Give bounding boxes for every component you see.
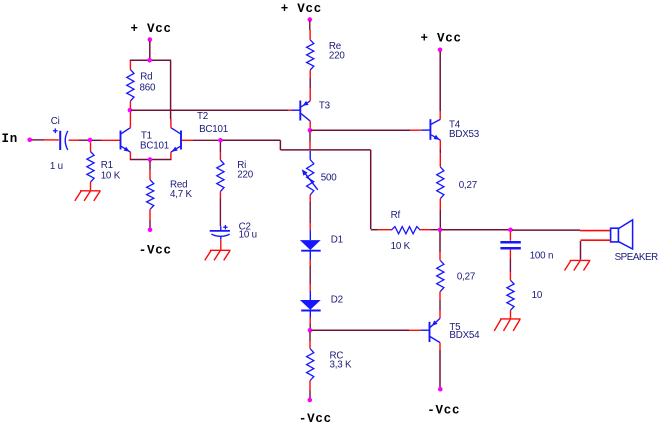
node F (T2 base / feedback) bbox=[218, 138, 223, 143]
svg-text:+ Vcc: + Vcc bbox=[421, 32, 462, 46]
svg-text:SPEAKER: SPEAKER bbox=[615, 252, 659, 263]
svg-text:BC101: BC101 bbox=[140, 141, 169, 152]
svg-text:BDX54: BDX54 bbox=[449, 330, 480, 341]
svg-text:4,7 K: 4,7 K bbox=[170, 189, 193, 200]
wire loop right branch bbox=[170, 61, 172, 119]
diode D2 bbox=[300, 291, 343, 318]
wire T1 collector up bbox=[129, 111, 131, 127]
node In (input terminal) bbox=[2, 132, 33, 146]
svg-text:100 n: 100 n bbox=[530, 251, 554, 262]
wire T3 collector down bbox=[309, 121, 311, 128]
svg-text:-Vcc: -Vcc bbox=[427, 404, 460, 418]
transistor T4 (BDX53, NPN) bbox=[421, 119, 479, 140]
wire emitters junction row bbox=[130, 159, 172, 161]
node I (D2 / RC / T5 base) bbox=[308, 328, 313, 333]
wire T2 base stub bbox=[182, 139, 218, 141]
wire to speaker bbox=[512, 229, 611, 232]
svg-text:10: 10 bbox=[532, 290, 543, 301]
power +Vcc (middle) bbox=[281, 2, 322, 22]
transistor T5 (BDX54, PNP) bbox=[421, 318, 480, 342]
wire T5 collector down bbox=[439, 343, 441, 388]
wire node A to T1 base bbox=[92, 139, 120, 141]
wire In to Ci bbox=[32, 139, 59, 141]
ground (speaker) bbox=[565, 260, 591, 270]
svg-text:Rf: Rf bbox=[391, 210, 401, 221]
wire 100n to resistor 10 bbox=[509, 250, 511, 281]
svg-text:-Vcc: -Vcc bbox=[299, 412, 332, 423]
svg-text:500: 500 bbox=[321, 173, 337, 184]
wire T2 emitter down bbox=[170, 152, 172, 159]
svg-text:220: 220 bbox=[237, 170, 253, 181]
wire loop top bbox=[130, 59, 172, 61]
wire node I to T5 base bbox=[312, 329, 422, 331]
svg-text:10 K: 10 K bbox=[391, 241, 411, 252]
node B (emitters of T1/T2) bbox=[148, 157, 153, 162]
wire feedback to Rf bbox=[223, 140, 378, 229]
node -Vcc (below Red) bbox=[139, 228, 172, 258]
wire Ci to node A bbox=[69, 139, 88, 141]
svg-text:T2: T2 bbox=[197, 111, 208, 122]
svg-text:+ Vcc: + Vcc bbox=[131, 22, 172, 36]
potentiometer 500 bbox=[302, 151, 337, 195]
wire T2 collector up bbox=[170, 119, 172, 128]
svg-text:3,3 K: 3,3 K bbox=[330, 359, 353, 370]
node G (output junction) bbox=[438, 228, 443, 233]
wire T1 emitter down bbox=[129, 152, 131, 159]
resistor Rd (860) bbox=[127, 61, 156, 109]
transistor T2 (BC101, NPN right, mirrored) bbox=[171, 111, 228, 152]
resistor Re (220) bbox=[307, 40, 346, 101]
svg-text:+ Vcc: + Vcc bbox=[281, 2, 322, 16]
wire node E to T4 base bbox=[311, 129, 421, 131]
ground (below C2) bbox=[205, 250, 231, 260]
svg-text:10 K: 10 K bbox=[101, 170, 121, 181]
wire D2 to node I bbox=[309, 318, 311, 329]
svg-text:D1: D1 bbox=[331, 234, 343, 245]
wire D1 to D2 bbox=[309, 260, 311, 292]
node E (T3 collector) bbox=[308, 128, 313, 133]
svg-text:D2: D2 bbox=[331, 294, 343, 305]
speaker bbox=[611, 220, 659, 263]
resistor RC (3,3 K) bbox=[307, 332, 352, 399]
wire output row to cap node bbox=[442, 229, 510, 231]
svg-text:Ci: Ci bbox=[51, 116, 60, 127]
resistor Ri (220) bbox=[217, 142, 254, 226]
svg-text:10 u: 10 u bbox=[239, 230, 257, 241]
svg-text:BDX53: BDX53 bbox=[449, 129, 480, 140]
diode D1 bbox=[300, 230, 343, 259]
svg-text:860: 860 bbox=[140, 82, 156, 93]
node H (output / 100n tap) bbox=[508, 228, 513, 233]
ground (below R1) bbox=[75, 191, 101, 201]
power +Vcc (right) bbox=[421, 32, 462, 53]
svg-text:In: In bbox=[2, 132, 19, 146]
wire node D to T3 base bbox=[131, 109, 292, 111]
resistor Red (4,7 K) bbox=[147, 161, 193, 228]
node -Vcc (below T5) bbox=[427, 387, 460, 418]
node D (Rd bottom / T1 collector) bbox=[128, 108, 133, 113]
wire Vcc2 down bbox=[309, 21, 311, 40]
wire Vcc1 down bbox=[149, 41, 151, 60]
svg-text:Rd: Rd bbox=[140, 72, 152, 83]
capacitor Ci (1 u, polarized) bbox=[50, 116, 68, 172]
resistor 10 bbox=[507, 280, 543, 318]
capacitor C2 (10 u, polarized) bbox=[210, 222, 257, 241]
resistor 0,27 (upper) bbox=[437, 167, 477, 229]
svg-text:1 u: 1 u bbox=[50, 161, 63, 172]
wire Vcc3 to T4 collector bbox=[439, 52, 441, 120]
wire speaker return bbox=[581, 240, 611, 259]
wire C2 to ground bbox=[220, 240, 222, 250]
wire node E down bbox=[309, 132, 311, 150]
node A (junction Ci/R1/T1 base) bbox=[88, 138, 93, 143]
svg-text:T3: T3 bbox=[319, 100, 331, 111]
svg-text:0,27: 0,27 bbox=[457, 271, 475, 282]
svg-text:-Vcc: -Vcc bbox=[139, 244, 172, 258]
svg-text:220: 220 bbox=[329, 51, 345, 62]
node C (loop top / Vcc tap) bbox=[147, 58, 152, 63]
power +Vcc (left) bbox=[131, 22, 172, 42]
svg-text:BC101: BC101 bbox=[199, 124, 228, 135]
transistor T3 (PNP driver) bbox=[292, 100, 331, 121]
node -Vcc (below RC) bbox=[299, 398, 332, 423]
transistor T1 (BC101, NPN left) bbox=[121, 128, 169, 152]
resistor R1 (10 K) bbox=[87, 142, 121, 190]
wire T4 emitter down bbox=[439, 140, 441, 167]
svg-text:0,27: 0,27 bbox=[459, 180, 477, 191]
wire pot to D1 bbox=[309, 195, 311, 230]
resistor 0,27 (lower) bbox=[437, 232, 475, 319]
resistor Rf (10 K) bbox=[378, 210, 439, 252]
ground (below resistor 10) bbox=[494, 319, 520, 331]
capacitor 100 n bbox=[500, 232, 553, 262]
